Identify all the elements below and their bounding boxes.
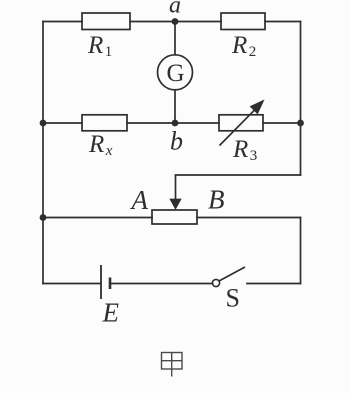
wire R2 to top-right corner xyxy=(265,21,301,23)
wire galvanometer down to node b xyxy=(174,90,176,123)
node b xyxy=(172,120,179,127)
wire node a to R2 xyxy=(175,21,221,23)
svg-text:a: a xyxy=(169,0,181,19)
svg-text:G: G xyxy=(167,60,185,87)
wire Rx to node b xyxy=(127,122,175,124)
R3 arrow xyxy=(220,101,264,146)
svg-text:B: B xyxy=(208,185,225,215)
wiper arrow down to rheostat xyxy=(170,175,181,209)
svg-text:S: S xyxy=(226,284,240,313)
wire right vertical (node down to corner) xyxy=(300,123,302,175)
wire row2 left (node to Rx) xyxy=(43,122,82,124)
wire horizontal to wiper arrow xyxy=(176,174,301,176)
wire R1 to node a xyxy=(130,21,175,23)
node left row2 xyxy=(40,120,47,127)
wire left vertical (top corner down to bottom row) xyxy=(42,22,44,284)
node left row3 xyxy=(40,214,47,221)
svg-text:b: b xyxy=(170,127,183,156)
wire row3 left xyxy=(43,217,152,219)
galvanometer G xyxy=(158,55,193,90)
wire R3 to right node xyxy=(263,122,301,124)
svg-text:E: E xyxy=(102,298,120,328)
wire bottom-left to battery xyxy=(43,283,101,285)
rheostat A-B xyxy=(152,210,197,224)
svg-text:A: A xyxy=(130,185,149,215)
wire top-left segment xyxy=(43,21,82,23)
resistor R1 xyxy=(82,13,130,30)
resistor R2 xyxy=(221,13,265,30)
switch S xyxy=(212,267,245,287)
wire right vertical lower xyxy=(300,218,302,284)
node a xyxy=(172,18,179,25)
wire node b to R3 xyxy=(175,122,219,124)
resistor Rx xyxy=(82,115,127,131)
wire row3 right xyxy=(197,217,301,219)
battery E plates xyxy=(101,265,110,299)
wire battery to switch xyxy=(111,283,213,285)
caption 甲 xyxy=(162,353,183,377)
wire node a down to galvanometer xyxy=(174,22,176,55)
wire switch to bottom-right xyxy=(247,283,301,285)
resistor R3 xyxy=(219,115,263,131)
wire right vertical upper (corner to node) xyxy=(300,22,302,124)
node right row2 xyxy=(297,120,304,127)
